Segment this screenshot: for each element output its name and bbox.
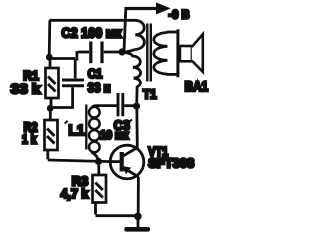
transformer T1 primary bottom lead xyxy=(134,78,141,105)
svg-text:C1: C1 xyxy=(88,66,103,81)
arrow -9V xyxy=(156,2,171,14)
transformer T1 primary tap xyxy=(124,50,135,53)
svg-text:T1: T1 xyxy=(143,88,157,102)
inductor L1 core line xyxy=(85,105,87,150)
node A junction R1 top xyxy=(46,54,53,61)
node E collector xyxy=(133,102,140,109)
speaker BA1 box xyxy=(180,46,192,61)
transformer T1 secondary winding xyxy=(154,32,168,74)
transformer T1 core xyxy=(146,24,148,82)
svg-text:33 н: 33 н xyxy=(88,81,111,95)
wire top rail xyxy=(50,19,136,22)
speaker BA1 back plate xyxy=(176,29,179,77)
speaker BA1 horn xyxy=(192,34,203,72)
svg-text:C2 100 мк: C2 100 мк xyxy=(62,25,123,41)
wire supply vertical xyxy=(124,9,126,52)
capacitor C2 xyxy=(77,42,120,64)
transistor VT1 base lead into circle xyxy=(108,160,122,163)
inductor L1 xyxy=(89,106,117,161)
wire emitter lead xyxy=(137,177,140,213)
ground xyxy=(124,227,150,232)
wire bottom rail xyxy=(96,214,139,217)
svg-text:33 k: 33 k xyxy=(11,81,41,96)
transistor VT1 emitter diagonal xyxy=(123,167,139,177)
tick near L1 xyxy=(65,121,68,124)
transistor VT1 emitter arrow xyxy=(122,166,131,174)
svg-text:SFT308: SFT308 xyxy=(148,156,194,171)
resistor R2 xyxy=(45,109,58,160)
wire collector lead xyxy=(135,106,138,148)
wire secondary top stub xyxy=(167,31,178,34)
resistor R3 xyxy=(93,165,107,215)
tick after C3 xyxy=(129,120,132,122)
capacitor C3 xyxy=(118,93,136,116)
resistor R1 xyxy=(46,57,59,108)
node B supply tap xyxy=(118,48,125,55)
svg-text:1 k: 1 k xyxy=(22,133,37,147)
svg-text:-9 В: -9 В xyxy=(169,8,190,22)
wire left rail upper xyxy=(48,20,51,57)
wire -9V feed xyxy=(125,7,157,10)
svg-text:BA1: BA1 xyxy=(185,79,209,94)
transistor VT1 circle xyxy=(110,145,144,179)
svg-text:4,7 k: 4,7 k xyxy=(61,186,89,201)
node D base line xyxy=(95,158,102,165)
transistor VT1 base bar xyxy=(120,152,124,172)
svg-text:L1: L1 xyxy=(69,123,85,139)
capacitor C1 xyxy=(50,59,85,108)
wire base line xyxy=(48,160,121,162)
transformer T1 primary lower winding xyxy=(124,53,140,79)
svg-text:10 мк: 10 мк xyxy=(100,130,129,142)
transformer T1 primary upper winding xyxy=(135,20,144,49)
node C R1 bottom xyxy=(47,105,54,112)
wire ground stub xyxy=(137,216,140,227)
wire secondary bottom stub xyxy=(167,73,178,76)
transistor VT1 collector diagonal xyxy=(123,147,139,156)
node F emitter ground xyxy=(134,213,142,221)
